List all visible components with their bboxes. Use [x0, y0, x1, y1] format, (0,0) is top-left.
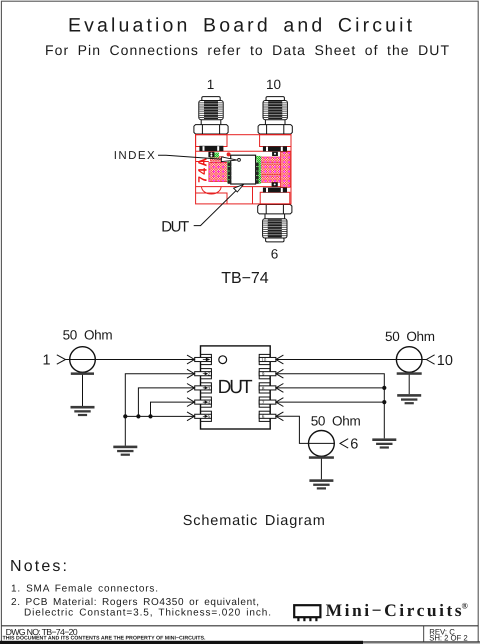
arrow pin2 [187, 369, 195, 378]
DUT U1 pin 5 [195, 411, 212, 421]
ground hatch strip left of DUT pins [227, 162, 231, 183]
port P1 source circle [70, 347, 96, 373]
port P1 bar [71, 372, 94, 375]
svg-text:®: ® [462, 601, 469, 611]
connector 10 flange outline [260, 135, 291, 147]
connector 6 centre pad [272, 182, 278, 186]
DUT U1 pin 8 [259, 383, 276, 393]
arrow pin5 [187, 412, 195, 421]
svg-text:1. SMA Female connectors.: 1. SMA Female connectors. [11, 584, 158, 595]
port P6 arrow [340, 439, 348, 448]
svg-text:2. PCB Material: Rogers RO4350: 2. PCB Material: Rogers RO4350 or equiva… [11, 597, 259, 608]
svg-text:DUT: DUT [161, 218, 189, 235]
arrow pin8 [276, 384, 284, 393]
title block line [1, 625, 478, 627]
svg-text:74A: 74A [195, 157, 209, 182]
PCB board outline [196, 135, 291, 204]
ground left bus [113, 446, 137, 456]
copper hatch right vertical bar [281, 152, 290, 187]
DUT U1 pin 2 [195, 369, 212, 379]
DUT U1 box [201, 346, 271, 429]
svg-text:5: 5 [208, 414, 211, 419]
wire pin6 to port6 [276, 416, 334, 443]
svg-text:4: 4 [208, 400, 211, 405]
connector 10 tab [263, 146, 287, 151]
DUT U1 pin 1 [195, 354, 212, 364]
junction pin4 bus [148, 414, 152, 418]
wire pin10 to port10 [276, 359, 427, 361]
svg-text:SH: 2 OF 2: SH: 2 OF 2 [429, 634, 468, 643]
arrow pin6 [276, 412, 284, 421]
svg-text:8: 8 [262, 386, 265, 391]
port P10 source circle [396, 347, 422, 373]
svg-text:1: 1 [207, 77, 215, 92]
Mini-Circuits logo case [294, 605, 320, 621]
connector 6 flange outline [260, 192, 290, 204]
junction pin8 [382, 386, 386, 390]
ground hatch blob right top [256, 156, 262, 160]
DUT U1 index circle [219, 356, 227, 364]
svg-text:THIS DOCUMENT AND ITS CONTENTS: THIS DOCUMENT AND ITS CONTENTS ARE THE P… [3, 636, 207, 642]
board inner line lower [196, 186, 291, 188]
svg-text:3: 3 [208, 386, 211, 391]
inner vertical centre [252, 187, 254, 204]
svg-text:6: 6 [271, 247, 279, 262]
inner rect bottom left [196, 193, 227, 204]
svg-text:TB−74: TB−74 [221, 270, 269, 287]
wire pin9 [276, 374, 384, 439]
svg-text:10: 10 [266, 77, 281, 92]
index dot [227, 152, 231, 156]
svg-text:For Pin Connections refer to D: For Pin Connections refer to Data Sheet … [45, 42, 449, 58]
svg-text:2: 2 [208, 372, 211, 377]
DUT U1 pin 3 [195, 383, 212, 393]
svg-text:Notes:: Notes: [10, 558, 67, 575]
arrow pin7 [276, 398, 284, 407]
svg-text:INDEX: INDEX [114, 150, 155, 162]
arrow pin3 [187, 384, 195, 393]
svg-text:50 Ohm: 50 Ohm [63, 328, 113, 343]
copper hatch left block [209, 162, 228, 181]
bottom bar [0, 641, 363, 644]
wire pin5 ground bus [125, 415, 194, 417]
port P10 arrow [426, 355, 434, 364]
svg-text:1: 1 [43, 353, 51, 369]
svg-text:10: 10 [437, 353, 453, 369]
svg-text:7: 7 [262, 400, 265, 405]
ground right bus [372, 438, 396, 448]
ground hatch under connector 1 tab [210, 153, 219, 158]
DUT U1 pin 6 [259, 411, 276, 421]
svg-text:Mini−Circuits: Mini−Circuits [326, 600, 462, 620]
junction pin7 [382, 400, 386, 404]
copper hatch right bottom arm [258, 176, 281, 182]
wire pin4 [151, 402, 195, 416]
SMA connector port 1 [194, 97, 228, 134]
arrow pin1 [187, 355, 195, 364]
connector 1 tab [199, 146, 223, 151]
board inner line left short [196, 161, 209, 163]
DUT leader line [194, 187, 240, 225]
svg-text:6: 6 [350, 437, 358, 453]
REV cell divider [423, 626, 425, 642]
DUT pins left [228, 163, 232, 184]
svg-text:10: 10 [261, 357, 267, 362]
ground port P1 [71, 406, 95, 416]
port P6 bar [309, 456, 334, 459]
svg-text:Dielectric Constant=3.5, Thick: Dielectric Constant=3.5, Thickness=.020 … [24, 608, 271, 619]
port P10 bar [397, 372, 422, 375]
wire pin2 [125, 374, 194, 417]
arrow pin10 [276, 355, 284, 364]
DUT U1 pin 9 [259, 369, 276, 379]
DUT U1 pin 10 [259, 354, 276, 364]
connector 6 tab [263, 188, 287, 193]
svg-text:50 Ohm: 50 Ohm [311, 413, 361, 428]
connector 1 centre pad [208, 152, 214, 157]
arrows into left pins [187, 355, 195, 421]
arrow pin4 [187, 398, 195, 407]
wire bus to ground [124, 416, 126, 445]
copper trace port 1 to DUT [211, 157, 224, 162]
wire pin8 [276, 387, 384, 389]
copper hatch right middle arm [258, 164, 280, 175]
DUT package [231, 155, 256, 184]
ground port P10 [397, 394, 421, 404]
board inner line upper [196, 150, 291, 152]
DUT pins right [255, 163, 259, 184]
svg-text:50 Ohm: 50 Ohm [385, 329, 435, 344]
junction pin3 bus [136, 414, 140, 418]
copper hatch right top arm [258, 157, 281, 163]
wire port1 to pin1 [66, 359, 195, 361]
arrows into right pins [276, 355, 284, 421]
port P1 arrow [57, 355, 66, 364]
wire port6 stub [320, 456, 322, 479]
ground port P6 [309, 479, 333, 489]
DUT leader arrow [234, 185, 244, 192]
connector 1 flange outline [196, 135, 227, 147]
port P6 source circle [309, 431, 335, 457]
wire pin7 [276, 401, 384, 403]
INDEX leader arrow [221, 157, 237, 162]
mounting arc [202, 187, 222, 194]
svg-text:9: 9 [262, 372, 265, 377]
wire port10 stub [408, 372, 410, 394]
arrow pin9 [276, 369, 284, 378]
SMA connector port 10 [258, 97, 292, 134]
svg-text:Evaluation Board and Circuit: Evaluation Board and Circuit [68, 15, 413, 37]
DUT index circle [238, 159, 241, 162]
svg-text:Schematic Diagram: Schematic Diagram [183, 513, 325, 529]
wire pin3 [138, 388, 194, 417]
DUT U1 pin 4 [195, 397, 212, 407]
connector 10 centre pad [272, 152, 278, 156]
svg-text:6: 6 [262, 414, 265, 419]
junction pin2 bus [123, 414, 127, 418]
INDEX leader line [158, 155, 224, 159]
ground hatch right of DUT pins [257, 157, 261, 184]
wire port1 stub [82, 372, 84, 406]
SMA connector port 6 [258, 205, 292, 242]
svg-text:DUT: DUT [218, 377, 253, 398]
DUT U1 pin 7 [259, 397, 276, 407]
